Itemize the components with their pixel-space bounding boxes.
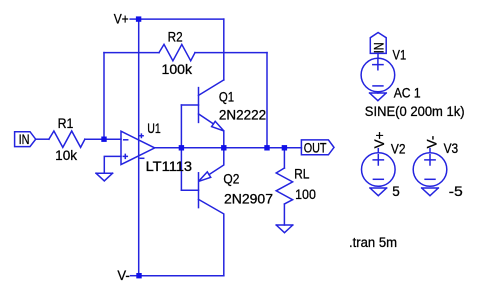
svg-text:R2: R2	[168, 30, 183, 45]
svg-text:-5: -5	[449, 184, 463, 199]
svg-text:5: 5	[392, 184, 400, 199]
svg-text:RL: RL	[294, 167, 310, 182]
V3 plus marker	[425, 155, 435, 165]
wire V+ stub	[130, 18, 138, 20]
wire op-amp + input to ground	[104, 156, 121, 173]
junction emitters	[221, 145, 226, 150]
resistor R1	[49, 131, 85, 147]
transistor Q1 collector	[199, 80, 224, 96]
svg-text:V+: V+	[372, 131, 387, 148]
ground below RL	[276, 225, 293, 233]
svg-text:2N2222: 2N2222	[219, 108, 266, 123]
ground at op-amp + input	[96, 173, 113, 181]
ground below V1	[370, 93, 387, 101]
V2 minus marker	[373, 178, 383, 180]
junction V+	[136, 16, 141, 21]
wire IN to R1	[36, 138, 49, 140]
junction RL top	[282, 145, 287, 150]
wire R2 right lead	[195, 52, 267, 54]
wire V- rail	[139, 275, 224, 277]
wire Q1 base	[181, 104, 198, 106]
V3 minus marker	[425, 178, 435, 180]
transistor Q2 collector	[199, 199, 224, 275]
wire V3 top pin stub	[429, 149, 431, 153]
transistor Q2 bar	[198, 173, 200, 208]
svg-text:100k: 100k	[162, 62, 193, 77]
svg-text:.tran 5m: .tran 5m	[349, 235, 397, 250]
wire feedback left vertical	[103, 53, 105, 140]
wire V1 flag to circle	[377, 53, 379, 58]
op-amp inverting marker	[124, 139, 128, 141]
svg-text:V-: V-	[424, 136, 439, 149]
svg-text:Q2: Q2	[223, 171, 239, 186]
wire Q1 collector drop	[223, 19, 225, 80]
svg-text:OUT: OUT	[304, 140, 327, 155]
junction V-	[136, 273, 141, 278]
svg-text:100: 100	[295, 187, 316, 202]
op-amp supply minus marker	[140, 157, 143, 159]
wire R2 left lead	[104, 52, 159, 54]
svg-text:LT1113: LT1113	[146, 159, 193, 174]
op-amp supply plus marker	[140, 134, 143, 137]
wire top V+ rail	[139, 18, 224, 20]
wire RL bottom lead	[283, 205, 285, 225]
wire Q2 base	[181, 189, 198, 191]
svg-text:IN: IN	[19, 132, 30, 147]
svg-text:V+: V+	[114, 12, 129, 27]
svg-text:10k: 10k	[55, 148, 77, 163]
V1 minus marker	[373, 85, 383, 87]
wire R1 to op-amp	[85, 138, 121, 140]
transistor Q1 emitter	[199, 114, 224, 148]
resistor RL	[276, 168, 292, 204]
ground below V2	[370, 188, 387, 196]
svg-text:2N2907: 2N2907	[224, 191, 273, 206]
transistor Q2 emitter arrow	[199, 172, 211, 182]
wire output row	[155, 147, 302, 149]
junction feedback	[264, 145, 269, 150]
junction op-amp output	[179, 145, 184, 150]
junction inverting node	[101, 137, 106, 142]
svg-text:V3: V3	[444, 141, 459, 156]
wire V- stub	[131, 275, 140, 277]
V2 plus marker	[373, 155, 383, 165]
op-amp noninverting marker	[123, 154, 127, 158]
svg-text:IN: IN	[372, 42, 387, 53]
svg-text:AC 1: AC 1	[394, 85, 421, 100]
transistor Q1 emitter arrow	[212, 121, 224, 131]
wire V2 top pin stub	[377, 149, 379, 153]
svg-text:V1: V1	[393, 47, 407, 62]
wire RL top lead	[283, 148, 285, 168]
op-amp U1 triangle	[121, 131, 155, 164]
wire feedback drop	[266, 53, 268, 148]
voltage source V2 circle	[362, 153, 396, 187]
transistor Q1 bar	[198, 88, 200, 123]
V1 plus marker	[373, 60, 383, 70]
svg-text:R1: R1	[58, 116, 74, 131]
svg-text:V-: V-	[117, 268, 129, 283]
port flag IN on V1	[370, 33, 386, 54]
svg-text:Q1: Q1	[219, 89, 234, 104]
wire base vertical	[180, 105, 182, 190]
wire supply vertical	[138, 19, 140, 276]
svg-text:V2: V2	[391, 141, 406, 156]
wire V1 to ground	[377, 92, 379, 93]
svg-text:U1: U1	[147, 121, 161, 136]
port OUT	[301, 140, 334, 155]
transistor Q2 emitter	[209, 148, 224, 175]
port IN	[15, 132, 36, 147]
voltage source V3 circle	[413, 153, 447, 187]
resistor R2	[159, 44, 195, 60]
ground below V3	[422, 188, 439, 196]
svg-text:SINE(0 200m 1k): SINE(0 200m 1k)	[365, 104, 465, 119]
voltage source V1 circle	[361, 58, 395, 92]
